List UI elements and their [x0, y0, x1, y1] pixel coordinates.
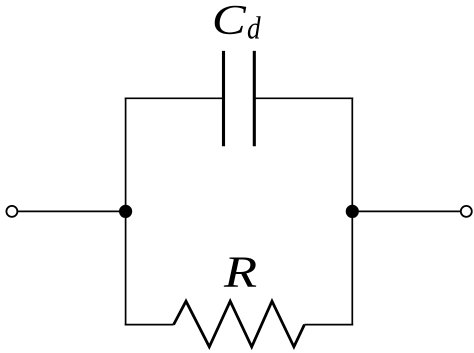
wire: node B to right terminal [352, 210, 461, 212]
svg-text:d: d [247, 11, 261, 45]
left terminal [6, 206, 17, 217]
capacitor Cd (left plate) [222, 51, 225, 146]
resistor R (zigzag) [174, 301, 305, 347]
wire: left terminal to node A [17, 210, 125, 212]
wire: bottom rail left (to resistor) [125, 324, 174, 326]
label Cd [212, 0, 261, 46]
wire: right vertical branch [351, 97, 353, 325]
wire: top rail right (from capacitor) [254, 97, 353, 99]
node B (right junction dot) [346, 205, 359, 218]
label R [223, 247, 257, 296]
capacitor Cd (right plate) [253, 51, 256, 146]
wire: left vertical branch [125, 97, 127, 325]
wire: top rail left (to capacitor) [125, 97, 224, 99]
svg-text:R: R [223, 247, 257, 296]
svg-text:C: C [212, 0, 247, 44]
right terminal [461, 206, 472, 217]
wire: bottom rail right (from resistor) [304, 324, 353, 326]
node A (left junction dot) [119, 205, 132, 218]
